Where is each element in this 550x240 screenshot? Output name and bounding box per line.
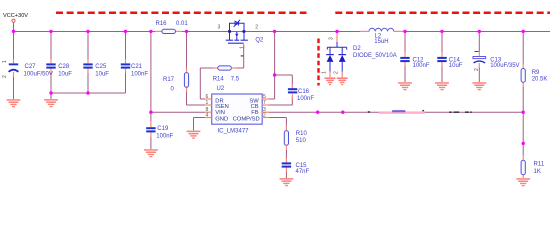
svg-text:1K: 1K (534, 169, 541, 175)
wire R9/R11 column (522, 31, 524, 178)
red dashed boundary line top-left segment (56, 11, 307, 14)
resistor R14 7.5 (213, 66, 240, 83)
svg-text:15uH: 15uH (374, 39, 388, 45)
wire DR to R14 (200, 68, 218, 99)
ground under C14 (435, 82, 449, 90)
svg-text:7: 7 (263, 100, 266, 106)
wire R10 to C15 (285, 150, 287, 178)
pin stubs U2 right (262, 94, 269, 119)
capacitor C16 100nF (288, 88, 314, 102)
wire VCC drop (13, 23, 15, 32)
wire top rail (14, 31, 361, 33)
svg-text:Q2: Q2 (255, 37, 264, 43)
svg-text:U2: U2 (217, 86, 225, 92)
capacitor C13 (polarized 100uF/35V) (473, 52, 520, 72)
svg-text:0.01: 0.01 (176, 21, 188, 27)
svg-text:100uF/50V: 100uF/50V (24, 72, 53, 78)
svg-text:100nF: 100nF (297, 96, 314, 102)
wire C21 column (125, 31, 127, 93)
svg-text:R17: R17 (163, 77, 175, 83)
svg-text:3: 3 (218, 24, 221, 30)
wire GND pin to ground (194, 118, 206, 131)
VCC terminal circle (12, 19, 15, 22)
wire FB highlighted segment (379, 112, 425, 114)
svg-text:2: 2 (255, 24, 258, 30)
svg-text:C19: C19 (157, 126, 169, 132)
resistor R16 0.01 (155, 21, 188, 34)
wire C13 column (478, 31, 480, 82)
resistor R17 0 (163, 73, 189, 93)
resistor R9 20.5K (521, 69, 547, 83)
svg-text:10uF: 10uF (95, 72, 109, 78)
svg-text:2: 2 (2, 75, 8, 78)
ground under C13 (472, 82, 486, 90)
svg-text:1: 1 (322, 71, 328, 74)
wire COMP/SD to R10 (269, 118, 287, 131)
op-amp U2 IC_LM3477 box (212, 86, 263, 134)
svg-text:7.5: 7.5 (231, 77, 240, 83)
svg-text:C25: C25 (95, 64, 107, 70)
capacitor C15 47nF (282, 162, 310, 175)
capacitor C12 100nF (400, 57, 430, 69)
red dashed boundary line vertical at D2 (317, 39, 319, 86)
svg-text:VCC+30V: VCC+30V (3, 13, 28, 19)
svg-text:C16: C16 (298, 89, 310, 95)
svg-text:100nF: 100nF (413, 63, 430, 69)
wire FB horizontal (269, 111, 524, 113)
svg-text:1: 1 (206, 100, 209, 106)
junction dots on rails (12, 30, 525, 145)
capacitor C14 10uF (437, 57, 463, 69)
wire CB bootstrap to C16 (269, 75, 293, 105)
wire C27 column (13, 31, 15, 99)
svg-text:D2: D2 (353, 46, 361, 52)
wire R17 column (186, 31, 188, 105)
red dashed boundary line top-right segment (335, 11, 550, 14)
svg-text:R14: R14 (213, 77, 225, 83)
wire C25 column (87, 31, 89, 93)
transistor Q2 (P-MOSFET with body diode) (218, 20, 265, 57)
inductor L2 15uH (360, 28, 403, 45)
svg-text:C28: C28 (58, 64, 70, 70)
capacitor C28 10uF (46, 63, 72, 77)
pin stubs U2 left (205, 94, 211, 119)
svg-text:4: 4 (206, 113, 209, 119)
capacitor C25 10uF (83, 63, 109, 77)
svg-text:10uF: 10uF (58, 72, 72, 78)
capacitor C19 100nF (146, 126, 173, 139)
svg-text:3: 3 (329, 37, 335, 40)
ground under R11 (516, 178, 530, 186)
svg-text:100uF/35V: 100uF/35V (490, 63, 519, 69)
wire ISEN horizontal (187, 104, 206, 106)
wire C12 column (404, 31, 406, 82)
svg-text:DIODE_50V10A: DIODE_50V10A (353, 53, 397, 59)
capacitor C21 100nF (121, 63, 149, 77)
resistor R11 1K (521, 160, 545, 175)
svg-text:C15: C15 (296, 163, 308, 169)
svg-text:IC_LM3477: IC_LM3477 (218, 128, 250, 134)
wire C28 column (50, 31, 52, 93)
svg-text:1: 1 (2, 60, 8, 63)
svg-text:2: 2 (474, 68, 480, 71)
diode D2 DIODE_50V10A (dual common-cathode) (322, 31, 397, 77)
ground under D2 left (325, 77, 336, 85)
wire bottom-left ground rail (51, 92, 126, 94)
svg-text:R9: R9 (532, 70, 540, 76)
resistor R10 510 (284, 131, 307, 150)
wire VIN horizontal (151, 111, 205, 113)
svg-text:1: 1 (240, 46, 246, 49)
svg-text:20.5K: 20.5K (532, 76, 548, 82)
svg-text:2: 2 (334, 71, 340, 74)
node marks on FB net (368, 110, 472, 113)
ground under C19 (144, 149, 158, 157)
wire ground stub (50, 93, 52, 99)
svg-text:VIN: VIN (215, 110, 225, 116)
wire C14 column (441, 31, 443, 82)
wire SW column (269, 31, 275, 99)
ground under D2 right (337, 77, 348, 85)
resistor body on FB net (392, 110, 406, 112)
svg-text:R11: R11 (534, 162, 545, 168)
svg-text:FB: FB (251, 110, 259, 116)
svg-text:47nF: 47nF (296, 169, 310, 175)
svg-text:GND: GND (215, 116, 228, 122)
svg-text:510: 510 (296, 138, 307, 144)
svg-text:100nF: 100nF (156, 133, 173, 139)
ground under C12 (398, 82, 412, 90)
ground under C28 rail (44, 99, 58, 107)
wire R14 to Q2 gate (237, 44, 244, 68)
ground under C27 (7, 99, 21, 107)
svg-text:R10: R10 (296, 131, 308, 137)
svg-text:10uF: 10uF (449, 63, 463, 69)
svg-text:C27: C27 (25, 64, 37, 70)
ground under C15 (280, 178, 294, 186)
svg-text:100nF: 100nF (131, 72, 148, 78)
wire VIN/C19 column (150, 31, 152, 149)
capacitor C27 (polarized 100uF/50V) (2, 60, 53, 78)
svg-text:2: 2 (263, 113, 266, 119)
ground under U2 GND (187, 131, 201, 139)
svg-text:C21: C21 (131, 64, 143, 70)
svg-text:COMP/SD: COMP/SD (233, 116, 260, 122)
svg-text:R16: R16 (156, 21, 168, 27)
